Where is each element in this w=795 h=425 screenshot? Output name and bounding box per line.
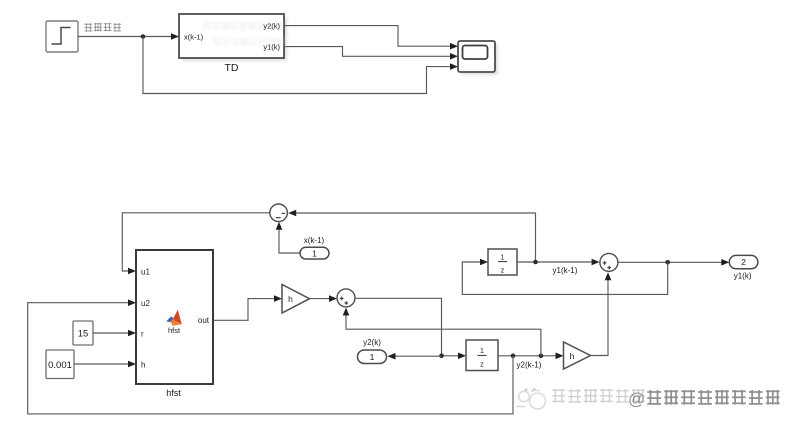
svg-text:y2(k-1): y2(k-1) [517,361,542,370]
svg-text:y2(k): y2(k) [363,338,381,347]
svg-text:h: h [288,294,293,304]
svg-text:2: 2 [741,257,746,267]
svg-text:hfst: hfst [166,388,181,398]
svg-text:y2(k): y2(k) [263,22,280,31]
svg-text:1: 1 [370,352,375,362]
svg-text:out: out [198,316,210,325]
svg-text:x(k-1): x(k-1) [184,33,204,42]
svg-text:z: z [501,268,505,275]
svg-text:@: @ [628,390,645,409]
svg-text:y1(k): y1(k) [263,43,280,52]
svg-text:y1(k-1): y1(k-1) [553,266,578,275]
svg-text:1: 1 [312,248,317,258]
svg-text:y1(k): y1(k) [734,272,752,281]
svg-text:u2: u2 [141,299,150,308]
svg-text:hfst: hfst [168,326,181,335]
svg-text:15: 15 [78,329,89,340]
svg-text:h: h [570,351,575,361]
svg-text:h: h [141,361,145,370]
svg-text:1: 1 [480,348,484,355]
svg-text:0.001: 0.001 [48,360,72,371]
svg-text:r: r [141,330,144,339]
svg-text:x(k-1): x(k-1) [304,236,325,245]
svg-text:u1: u1 [141,268,150,277]
svg-text:z: z [480,362,484,369]
svg-text:1: 1 [501,255,505,262]
svg-text:TD: TD [225,62,239,74]
